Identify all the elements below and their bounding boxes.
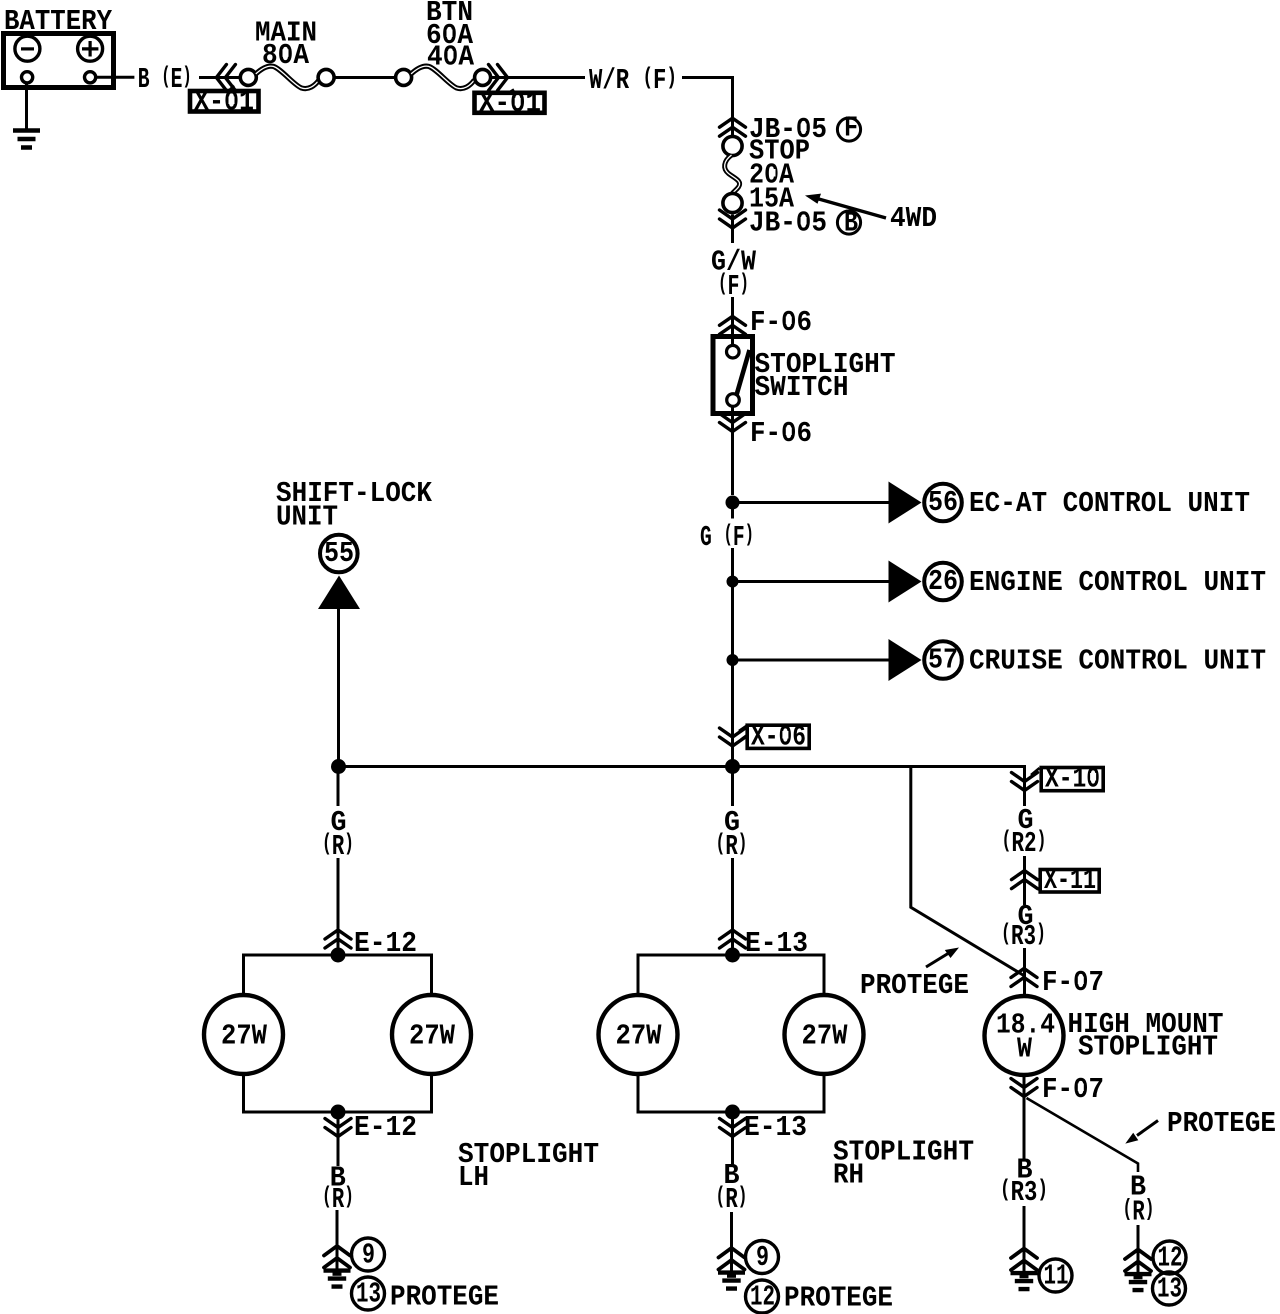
svg-text:B: B [844,207,858,240]
svg-text:57: 57 [928,644,958,677]
svg-text:27W: 27W [802,1020,849,1053]
svg-text:F-07: F-07 [1042,1073,1104,1106]
svg-text:ENGINE CONTROL UNIT: ENGINE CONTROL UNIT [969,566,1266,599]
svg-text:4WD: 4WD [890,202,937,235]
svg-text:27W: 27W [616,1020,663,1053]
svg-text:SWITCH: SWITCH [755,371,849,404]
svg-text:F-06: F-06 [750,306,812,339]
svg-text:CRUISE CONTROL UNIT: CRUISE CONTROL UNIT [969,645,1266,678]
svg-text:E-12: E-12 [354,1111,417,1144]
svg-text:F-07: F-07 [1042,966,1104,999]
svg-text:56: 56 [928,486,958,519]
svg-text:STOPLIGHT: STOPLIGHT [1078,1031,1218,1064]
svg-text:F: F [844,112,858,145]
svg-text:RH: RH [833,1159,864,1192]
svg-text:JB-05: JB-05 [749,207,827,240]
svg-text:W: W [1017,1033,1033,1066]
svg-text:26: 26 [928,565,958,598]
svg-text:11: 11 [1044,1260,1069,1293]
svg-text:27W: 27W [221,1020,268,1053]
svg-text:F-06: F-06 [750,417,812,450]
svg-text:E-13: E-13 [744,1111,807,1144]
svg-text:PROTEGE: PROTEGE [784,1282,893,1314]
svg-text:12: 12 [1158,1242,1183,1275]
svg-text:27W: 27W [409,1020,456,1053]
svg-text:PROTEGE: PROTEGE [390,1281,499,1314]
svg-text:X-01: X-01 [194,86,254,119]
svg-text:12: 12 [750,1281,775,1314]
svg-text:9: 9 [362,1239,375,1272]
svg-text:X-06: X-06 [751,721,806,754]
svg-text:55: 55 [324,537,354,570]
svg-text:13: 13 [356,1278,381,1311]
svg-text:X-11: X-11 [1044,864,1096,897]
svg-text:9: 9 [756,1241,769,1274]
svg-text:LH: LH [458,1161,489,1194]
svg-text:13: 13 [1157,1273,1182,1306]
svg-text:W/R (F): W/R (F) [589,64,677,97]
svg-text:EC-AT CONTROL UNIT: EC-AT CONTROL UNIT [969,487,1250,520]
svg-text:PROTEGE: PROTEGE [1167,1107,1276,1140]
svg-text:PROTEGE: PROTEGE [860,969,969,1002]
svg-text:UNIT: UNIT [276,501,338,534]
